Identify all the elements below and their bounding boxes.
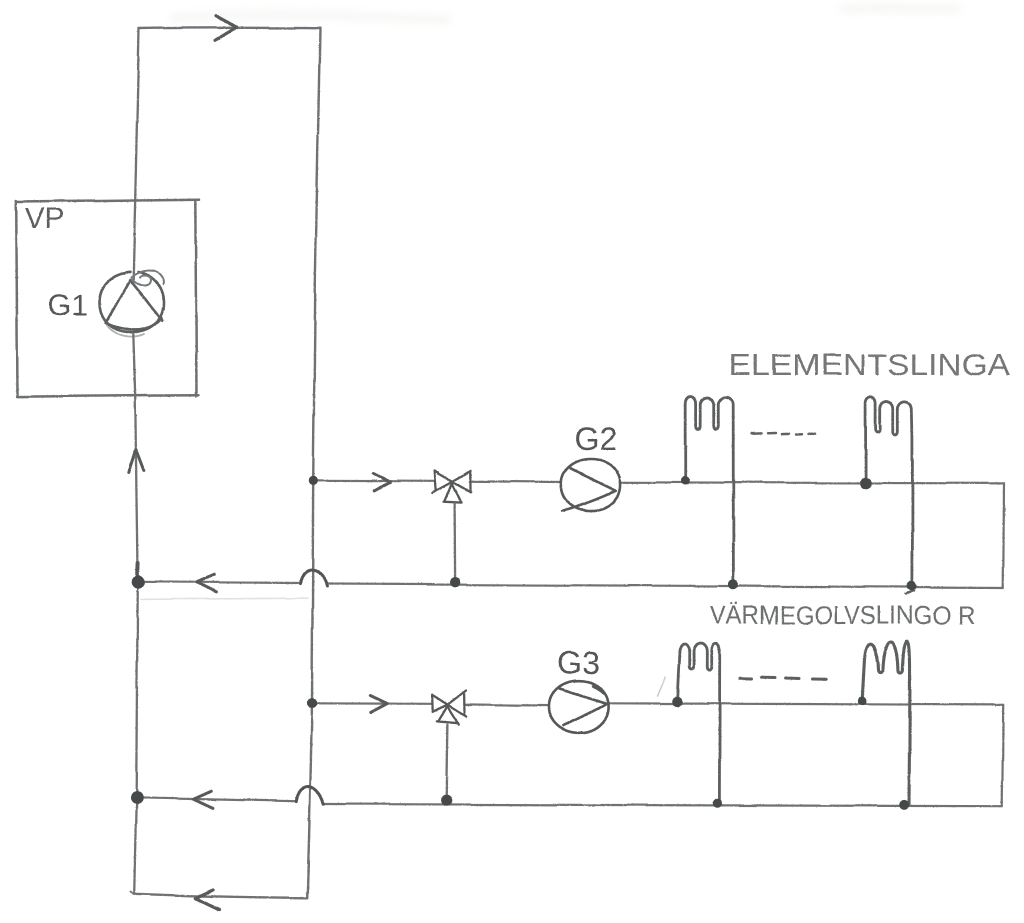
- wire left vertical bottom section: [134, 801, 136, 894]
- junction node riser supply 1: [309, 476, 318, 485]
- arrow flow right on supply 2: [370, 696, 387, 713]
- junction node coil 2 supply: [860, 477, 872, 489]
- svg-text:VP: VP: [25, 203, 64, 235]
- junction node valve V2 stem on return 2: [441, 795, 452, 806]
- pump G3 impeller chevron: [559, 687, 607, 726]
- crossover hop return 2 over riser: [296, 786, 323, 804]
- arrow flow left on return 1: [197, 575, 217, 592]
- wire below pump G1 to lower-left node: [133, 333, 137, 578]
- wire bottom return horizontal: [134, 894, 307, 898]
- arrow flow left on return 2: [194, 791, 214, 808]
- corner tick bottom-left: [131, 892, 134, 894]
- junction node valve V1 stem on return 1: [450, 577, 460, 587]
- junction node left return 1: [132, 575, 145, 588]
- wire left vertical lower section: [136, 585, 138, 794]
- pump G3 circle: [548, 681, 608, 733]
- pump G1 circle: [100, 272, 164, 332]
- wire supply 2 horizontal: [312, 703, 1003, 705]
- valve V1 three-way: [433, 470, 471, 502]
- pump G2 circle: [561, 459, 621, 511]
- pump G2 impeller chevron: [563, 468, 617, 511]
- heat pump box VP: [16, 199, 199, 396]
- radiator coil 2: [866, 397, 913, 586]
- svg-text:G2: G2: [574, 421, 617, 457]
- paper smudges: [170, 8, 960, 20]
- junction node coil 4 supply: [858, 696, 867, 705]
- valve V2 three-way: [432, 691, 466, 725]
- wire valve V1 stem: [453, 503, 456, 578]
- radiator coil 1: [686, 397, 734, 584]
- junction node coil 4 return: [899, 800, 909, 810]
- arrow flow right on supply 1: [373, 474, 390, 491]
- svg-text:ELEMENTSLINGA: ELEMENTSLINGA: [729, 347, 1010, 382]
- wire top supply horizontal: [139, 27, 320, 30]
- radiator coil 4: [863, 641, 910, 805]
- dashed continuation between coils 1-2: [752, 433, 816, 435]
- stray pencil mark: [658, 678, 666, 697]
- pencil overdraw blob on left wire: [135, 563, 139, 574]
- junction node riser supply 2: [307, 698, 317, 708]
- wire supply 1 horizontal: [313, 480, 1004, 483]
- svg-text:G1: G1: [48, 290, 88, 322]
- tiny stray dash above label: [906, 591, 914, 595]
- wire return 1 horizontal: [138, 582, 1003, 588]
- pump G1 pen swirl overdraw: [131, 271, 163, 286]
- junction node coil 1 return: [728, 579, 738, 589]
- junction node coil 2 return: [907, 581, 917, 591]
- crossover hop return 1 over riser: [300, 570, 327, 587]
- pump G1 impeller triangle: [106, 280, 163, 329]
- radiator coil 3: [678, 644, 720, 803]
- junction node coil 1 supply: [681, 476, 690, 485]
- svg-text:VÄRMEGOLVSLINGO R: VÄRMEGOLVSLINGO R: [710, 600, 975, 630]
- wire return 2 horizontal: [136, 798, 1002, 806]
- arrow flow up toward VP: [128, 450, 144, 473]
- pump G1 bottom overdraw arc: [107, 325, 144, 336]
- arrow flow right on top wire: [215, 16, 237, 41]
- wire right drop loop 2: [1002, 705, 1003, 806]
- junction node left return 2: [130, 792, 143, 805]
- svg-text:G3: G3: [557, 645, 600, 681]
- arrow flow left on bottom wire: [196, 890, 220, 910]
- junction node coil 3 return: [713, 799, 722, 808]
- wire right drop loop 1: [1002, 483, 1005, 587]
- faint erased guide line: [141, 598, 308, 599]
- dashed continuation between coils 3-4: [740, 677, 826, 679]
- wire left vertical from top into VP pump: [133, 29, 139, 281]
- wire main riser vertical: [307, 28, 320, 898]
- junction node coil 3 supply: [672, 696, 682, 706]
- wire valve V2 stem: [446, 725, 447, 796]
